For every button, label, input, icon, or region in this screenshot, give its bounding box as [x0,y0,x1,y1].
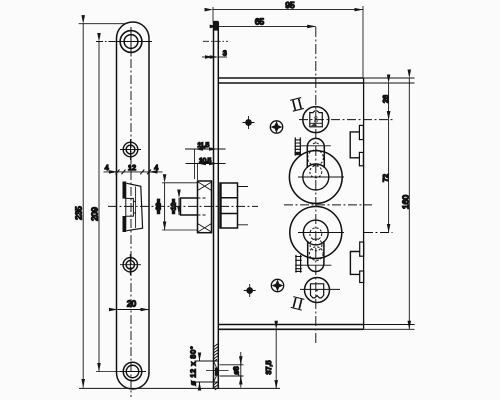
svg-text:4: 4 [154,163,158,172]
faceplate vertical centerline [130,27,132,397]
dimension 209 [96,41,228,371]
svg-text:95: 95 [285,0,295,10]
lower cylinder [290,207,393,272]
svg-text:235: 235 [74,206,84,220]
dimension 10,5 [186,164,226,181]
dimension approx33 [162,183,198,230]
dimension 20 [118,309,150,311]
main vertical axis [315,27,317,343]
right bracket upper [350,125,363,165]
spring upper [295,137,331,155]
bottom screw hole [120,362,146,381]
dimension approx12 [178,198,180,215]
faceplate section hatching bottom [214,344,219,391]
countersink hole lines (front side o12) [195,361,244,382]
top screw hole [117,28,146,56]
screw head upper [270,121,282,133]
svg-text:160: 160 [401,195,411,209]
svg-text:10,5: 10,5 [199,158,212,165]
dimension 95 [213,6,363,78]
svg-text:37,5: 37,5 [264,361,273,375]
latch bolt section (protruding) [181,181,212,233]
upper spindle follower [299,107,393,133]
dimension 65 [218,25,315,27]
dimension 3 (plate thickness) [202,56,227,58]
right bracket lower [350,242,363,283]
dimension 37,5 [275,329,277,388]
latch head inside case [220,183,248,228]
svg-text:26: 26 [381,95,390,103]
svg-text:209: 209 [89,207,99,221]
svg-text:65: 65 [255,17,265,27]
upper small hole [120,139,141,160]
locating pin mark upper [243,116,255,129]
faceplate side view [214,22,219,389]
dimension 11,5 [185,149,226,179]
II mark upper [290,98,304,112]
locating pin mark lower [244,284,256,297]
svg-text:ø 12 x 80°: ø 12 x 80° [189,346,198,386]
lock case body [218,78,363,329]
lower keyway (dashed) [310,228,324,261]
spring lower [295,255,331,273]
latch cutout in faceplate [124,182,142,233]
II mark lower [291,297,305,310]
svg-text:4: 4 [105,163,109,172]
svg-text:3: 3 [223,49,227,58]
svg-text:72: 72 [381,174,390,182]
dimension 235 [79,24,280,389]
upper cylinder [289,138,344,203]
dimension o8 [240,352,242,388]
dimension 26 [388,83,390,120]
latch axis centerline [108,205,258,207]
countersink section fill [214,361,219,382]
svg-text:20: 20 [127,299,137,309]
svg-text:12: 12 [128,163,136,172]
svg-text:ø8: ø8 [233,366,240,374]
lower small hole [120,254,141,275]
screw head lower [271,279,283,291]
right extension lines [364,78,415,329]
faceplate front view outline [117,22,150,389]
lower spindle follower [300,278,340,303]
upper keyway (dashed) [308,143,324,178]
svg-text:11,5: 11,5 [197,142,209,149]
dimension 160 [408,78,410,329]
dimension o12x80 [199,353,201,390]
dimension 4 12 4 [104,170,163,175]
dimension 72 [388,120,390,233]
